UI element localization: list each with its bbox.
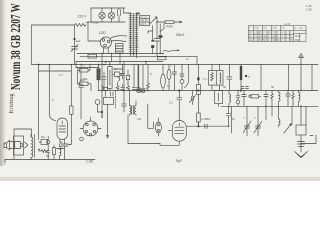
resistor R16 [197,113,201,126]
tube V2 envelope [172,121,186,142]
zigzag link [75,22,89,26]
coil L4 [279,91,281,107]
resistor R10 box [114,72,120,76]
resistor R2 [70,106,73,114]
switch S5 [190,91,196,105]
IF box pair [209,65,224,91]
wire T2 ends [30,134,32,160]
wire x128 riser [128,115,160,144]
resistor R18 zigzag [271,91,273,107]
svg-text:50: 50 [271,85,275,89]
page number [306,4,312,12]
wave link [163,50,179,52]
node dots rails [38,53,164,151]
capacitor C6b [132,65,136,91]
wire x261 [260,65,262,91]
wire top-left vertical [31,25,33,65]
L bracket [301,135,316,144]
svg-text:0,1: 0,1 [59,73,63,77]
svg-text:Mk: Mk [41,135,45,139]
box text [140,16,148,26]
trimmer T3 [243,121,251,133]
output transformer T2 core [33,135,35,158]
voltage box [140,16,150,26]
capacitor C11 [236,91,240,101]
lamp L3 [95,100,102,117]
label 220 [78,14,88,18]
mains transformer T1 primary [130,13,132,55]
resistor R11 box [126,75,129,79]
resistor R8 box [80,82,89,86]
tube V1 pins [60,140,65,145]
coil L6 [279,106,281,127]
band switch arrow [150,17,157,24]
svg-text:0,1: 0,1 [169,101,173,105]
wire lamp left [90,8,92,22]
brand text Krietzag [9,93,15,113]
node E [179,90,181,92]
resistor R7 box [80,69,89,73]
svg-text:EF: EF [249,32,253,35]
earth lead [301,106,306,152]
dark blob R14 [197,77,199,80]
svg-text:KW 4: KW 4 [140,23,147,26]
wire x148 [147,65,149,82]
svg-text:4300: 4300 [295,39,301,42]
wire bottom rail [5,159,95,161]
voltage table [249,26,307,42]
svg-text:Krietzag: Krietzag [9,93,15,113]
wire trimmer feed [247,106,258,136]
rail B+ y64.5 [32,64,319,66]
svg-text:4 kΩ: 4 kΩ [166,25,173,29]
wire x157 [155,18,166,57]
coupling caps above rail [241,87,249,89]
stub M1 [47,137,49,141]
label LZD [99,31,106,35]
pin circle [80,137,84,141]
label 0.1uF [169,101,173,105]
junction dots extra [98,21,302,127]
capacitor C4 [102,72,106,91]
capacitor C12 [242,91,246,107]
title text Novum 38 GB 2207 W [7,3,24,90]
wire x74 upper [74,25,76,39]
wire box down [105,91,107,97]
svg-text:Novum 38 GB 2207 W: Novum 38 GB 2207 W [7,3,24,90]
node G [101,111,103,113]
resistor R20 box [103,87,108,90]
svg-text:Ug1: Ug1 [255,27,260,30]
wire R2 down [68,114,71,144]
resistor R13 zigzag [147,81,150,91]
wire y129 left [14,129,32,160]
label 4k [166,25,173,29]
wire R16 bottom [197,122,199,126]
lamp small L2 [141,65,145,93]
box right [296,125,306,135]
wire speaker link [10,142,14,149]
wire x266 down [265,106,267,120]
lamp small L1 [137,65,141,93]
wire x292 down [291,106,293,125]
meter circle M1 [47,140,50,143]
dashed arrow [114,91,116,109]
table caption [284,22,291,26]
svg-text:0,5: 0,5 [113,67,117,71]
output transformer T2 winding [31,137,33,157]
tube V1 envelope [57,118,68,140]
rail y53.5 [77,53,163,55]
capacitor C13 [264,91,268,107]
capacitor C14 [286,91,290,107]
switch S2 [111,92,114,96]
capacitor C1 [71,39,78,65]
wire R5 [159,24,161,54]
svg-text:50: 50 [223,85,227,89]
wire x39 down [38,65,40,140]
coil L2b [135,101,136,115]
branch resistor R6 [165,21,179,24]
svg-text:1,8Ω: 1,8Ω [86,160,94,164]
J curl [118,77,120,81]
svg-text:1W: 1W [137,117,142,121]
lamp LP1 [99,8,105,22]
tilde mark [76,40,80,43]
resistor R4 [53,145,56,160]
rail y67.5 [76,62,99,68]
svg-text:50k: 50k [83,77,88,81]
node C [240,90,242,92]
wire x164 down [160,24,164,32]
speaker LS frame [14,136,24,155]
wire cluster [112,65,128,84]
tube V2 grid [175,123,184,133]
shield can [108,62,112,91]
node A [74,38,76,40]
wire x49 tube feed [49,65,55,121]
svg-text:50: 50 [46,154,50,158]
wire x241 [240,65,242,91]
svg-text:HSW: HSW [92,21,99,25]
label 5uF [176,159,182,163]
lamp LP2 [108,8,114,22]
wire R7 [76,65,90,71]
bracket wire [148,31,152,34]
connector hatch [116,46,124,51]
resistor R17 box [251,95,259,98]
wire x102 drop [102,54,146,91]
capacitor C2 [56,144,68,160]
wire x228 down [226,106,230,126]
earth arrow [295,152,308,158]
label LZ1 [80,65,85,69]
lamp rail bottom [88,21,125,23]
resistor R5 dark [159,35,163,38]
arrow tip [179,21,183,23]
speaker LS magnet [15,142,23,149]
table text [249,27,303,42]
coil L2a [130,91,131,116]
socket pins down [104,48,109,54]
svg-text:mA: mA [299,27,303,30]
svg-text:C: C [52,98,54,102]
trimmer T4 [254,121,262,133]
resistor R19 zigzag [292,91,294,107]
svg-text:T: T [243,116,245,120]
rail y61.5 [76,61,163,63]
scatter labels 2 [41,57,275,158]
IF can box [215,91,223,104]
device D1 [180,80,189,91]
tube socket S3 [80,117,101,136]
wire socket curves [110,36,127,42]
wire x288 [288,65,290,91]
capacitor C6c [136,65,140,91]
speaker LS driver [4,140,10,150]
resistor R3b zigzag [39,150,48,153]
wire top-left horizontal [32,24,75,26]
relay box K1 [104,98,114,105]
label HSW [92,21,99,25]
rail y106.3 [221,105,318,107]
rail y90.5 [98,90,318,92]
drop arrow [106,105,108,138]
wire x231 down [231,106,233,133]
wire y71 [39,70,72,72]
svg-text:ca 6V: ca 6V [284,22,291,26]
svg-text:AZ: AZ [249,39,253,42]
resistor R12 zigzag [116,83,119,91]
wire x187 [188,65,190,82]
coupling arrows [25,142,29,148]
label 0.1 [59,67,227,89]
wire x168 [168,129,172,131]
blocking caps dark [151,40,154,42]
resistor R3 box [41,140,48,145]
resistor R9b box [158,57,167,60]
wire x102 down [101,62,103,118]
rail y56.3 right [80,56,197,64]
small tube N1 [155,122,161,133]
wire x152.5 [152,26,154,54]
capacitor C8 [173,65,177,91]
wire V2 top [177,91,182,121]
wire socket feed [88,22,100,41]
svg-text:0,3MΩ: 0,3MΩ [202,117,212,121]
wire x71 down [70,65,72,107]
node F [198,90,200,92]
wire T1 bottom [131,55,137,59]
label mA [176,33,185,37]
paper background [0,0,320,181]
label LZ2 [80,78,85,82]
svg-text:2 39: 2 39 [306,8,312,12]
label node B [248,75,251,79]
capacitor C7 [122,91,126,113]
device D3 [236,100,240,106]
tube V1 grid [59,121,66,132]
svg-text:50mA: 50mA [176,33,185,37]
electrolytic E2 [167,65,171,91]
meter circle M2 [249,95,251,97]
switch S1 [118,8,124,22]
wire x312 [311,65,313,91]
core lines [132,106,134,115]
connector box [116,44,124,54]
wire B anode [186,125,228,127]
svg-text:60mA: 60mA [295,35,302,38]
choke L1 [60,145,62,160]
diag arrow [284,124,291,133]
wire can down [218,104,220,107]
corner tick [4,160,6,164]
resistor R7b box [88,54,97,58]
electrolytic E1 [161,65,166,91]
node B [245,75,247,77]
resistor R9 dark [97,65,100,91]
tube V2 pin [160,141,179,145]
mains transformer T1 core [132,14,135,56]
coil L3 [229,91,231,107]
capacitor C5 [120,69,124,79]
wire U loop [148,104,159,136]
svg-text:0,1: 0,1 [203,77,207,81]
capacitor C15 [227,65,232,91]
coil L5 [299,91,301,107]
wire R8 [78,70,92,90]
wire R17 [259,95,261,97]
wire R3 [39,142,48,150]
wire T1 top [124,13,140,14]
heater line x81 [79,68,84,120]
capacitor C3 [47,150,50,159]
svg-text:T: T [254,116,256,120]
dark coil bar [240,66,242,80]
svg-text:5μ: 5μ [232,117,236,121]
resistor R14 [196,65,200,114]
wire x272 down [271,106,273,116]
svg-text:1n: 1n [186,57,190,61]
svg-text:5μF: 5μF [176,159,182,163]
capacitor C9 [180,65,184,80]
capacitor C6 [121,84,125,91]
label 0.3M [202,117,212,121]
lamp rail top [91,7,125,9]
svg-text:220 V: 220 V [78,14,88,18]
tube socket LZD [100,37,111,48]
svg-text:Ug2: Ug2 [273,27,278,30]
earth cap [298,142,305,147]
svg-text:L2D: L2D [99,31,106,35]
label 1.8 [86,160,94,164]
node D [198,125,200,127]
mains transformer T1 secondary [136,13,138,55]
antenna arrow [299,54,304,91]
svg-text:5n: 5n [60,140,64,144]
capacitor C10 [205,124,207,129]
resistor R12b zigzag [127,83,130,91]
svg-text:4n: 4n [104,60,108,64]
